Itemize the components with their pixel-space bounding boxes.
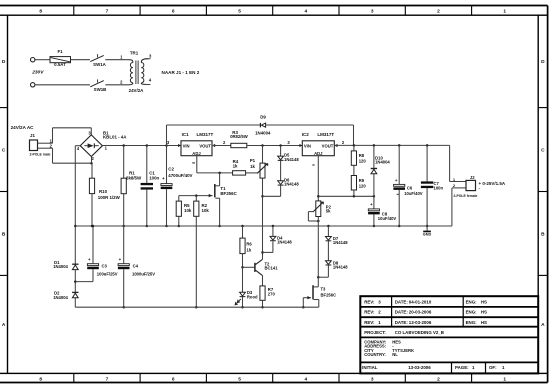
svg-text:DATE:: DATE: (395, 299, 409, 304)
svg-text:C2: C2 (168, 167, 174, 172)
svg-text:ENG:: ENG: (466, 320, 478, 325)
svg-text:1N4004: 1N4004 (375, 159, 390, 164)
svg-text:VOUT: VOUT (322, 143, 334, 148)
svg-text:1N4004: 1N4004 (255, 131, 271, 136)
svg-text:R8: R8 (359, 153, 365, 158)
svg-text:DATE:: DATE: (395, 310, 409, 315)
svg-text:6: 6 (172, 9, 175, 15)
svg-text:04-01-2010: 04-01-2010 (409, 299, 432, 304)
svg-text:A: A (541, 322, 545, 328)
svg-text:100n: 100n (149, 175, 159, 180)
svg-text:5k: 5k (326, 209, 331, 214)
svg-text:PAGE:: PAGE: (455, 365, 469, 370)
svg-text:B: B (541, 232, 545, 238)
svg-text:CO LABVOEDING V2_B: CO LABVOEDING V2_B (395, 330, 444, 335)
svg-text:C3: C3 (102, 264, 108, 269)
svg-text:2-POLE male: 2-POLE male (30, 152, 51, 156)
svg-text:1N4148: 1N4148 (284, 157, 299, 162)
svg-text:8: 8 (39, 376, 42, 382)
svg-text:10uF/40V: 10uF/40V (378, 216, 397, 221)
svg-text:SW1A: SW1A (93, 62, 107, 67)
svg-text:+: + (119, 257, 122, 262)
svg-text:VIN: VIN (304, 143, 311, 148)
svg-text:R6: R6 (246, 241, 252, 246)
svg-text:+: + (162, 176, 165, 181)
svg-text:R9: R9 (359, 178, 365, 183)
svg-text:Rood: Rood (247, 294, 258, 299)
svg-text:HS: HS (481, 310, 487, 315)
svg-text:C6: C6 (407, 186, 413, 191)
svg-text:1: 1 (503, 376, 506, 382)
svg-text:5: 5 (238, 376, 241, 382)
svg-text:DATE:: DATE: (395, 320, 409, 325)
svg-text:ADJ: ADJ (192, 151, 201, 156)
svg-text:IC2: IC2 (302, 132, 310, 137)
svg-text:+: + (88, 257, 91, 262)
svg-text:1k: 1k (233, 164, 238, 169)
svg-text:R10: R10 (99, 189, 108, 194)
svg-text:INITIAL: INITIAL (362, 365, 378, 370)
svg-text:OF:: OF: (489, 365, 497, 370)
svg-text:0.5AT: 0.5AT (54, 62, 66, 67)
svg-text:NAAR J1 - 1 EN 2: NAAR J1 - 1 EN 2 (162, 70, 200, 75)
svg-text:J1: J1 (30, 133, 35, 138)
svg-text:6: 6 (172, 376, 175, 382)
svg-text:10uF/40V: 10uF/40V (404, 191, 423, 196)
svg-text:NL: NL (392, 352, 398, 357)
svg-text:GND: GND (423, 233, 432, 237)
svg-text:1N4148: 1N4148 (284, 182, 299, 187)
svg-text:1N4004: 1N4004 (53, 295, 68, 300)
svg-text:3: 3 (371, 376, 374, 382)
svg-text:4: 4 (305, 9, 308, 15)
svg-text:D: D (2, 59, 6, 65)
svg-text:T3: T3 (321, 286, 327, 291)
svg-text:13-03-2006: 13-03-2006 (409, 320, 432, 325)
svg-text:LM317T: LM317T (197, 132, 214, 137)
svg-text:C: C (541, 148, 545, 154)
svg-text:1N4148: 1N4148 (277, 240, 292, 245)
svg-text:20-03-2006: 20-03-2006 (409, 310, 432, 315)
svg-text:7: 7 (106, 376, 109, 382)
svg-text:REV:: REV: (364, 310, 375, 315)
svg-text:REV:: REV: (364, 320, 375, 325)
svg-text:4: 4 (305, 376, 308, 382)
svg-text:1k: 1k (247, 248, 252, 253)
svg-text:VIN: VIN (183, 143, 190, 148)
svg-text:100uF/25V: 100uF/25V (97, 271, 118, 276)
svg-text:+: + (395, 178, 398, 183)
svg-text:KBL01 - 4A: KBL01 - 4A (103, 135, 127, 140)
svg-text:B: B (2, 232, 6, 238)
svg-text:1N4148: 1N4148 (333, 240, 348, 245)
svg-text:ENG:: ENG: (466, 310, 478, 315)
svg-text:+: + (370, 202, 373, 207)
svg-text:1k: 1k (250, 164, 255, 169)
svg-text:1N4148: 1N4148 (333, 265, 348, 270)
svg-text:2-POLE female: 2-POLE female (454, 194, 478, 198)
svg-text:+ 0-25V/1.5A: + 0-25V/1.5A (479, 181, 506, 186)
svg-text:120: 120 (359, 159, 367, 164)
svg-text:VOUT: VOUT (199, 143, 211, 148)
svg-text:BF256C: BF256C (220, 191, 237, 196)
svg-text:SW1B: SW1B (94, 87, 107, 92)
svg-text:HS: HS (481, 320, 487, 325)
svg-text:TR1: TR1 (130, 51, 139, 56)
svg-text:P1: P1 (250, 158, 256, 163)
svg-text:10k: 10k (184, 208, 192, 213)
svg-text:C: C (2, 148, 6, 154)
svg-text:HS: HS (481, 299, 487, 304)
svg-text:270: 270 (268, 292, 276, 297)
svg-text:10k: 10k (202, 208, 210, 213)
svg-text:230V: 230V (31, 70, 44, 76)
svg-text:3: 3 (371, 9, 374, 15)
svg-text:F1: F1 (57, 49, 63, 54)
svg-text:24V/2A: 24V/2A (129, 88, 144, 93)
svg-text:1000uF/25V: 1000uF/25V (132, 271, 155, 276)
svg-text:D9: D9 (260, 114, 266, 119)
svg-text:2: 2 (437, 9, 440, 15)
svg-text:100n: 100n (434, 185, 444, 190)
svg-text:8: 8 (39, 9, 42, 15)
svg-text:6k8/5W: 6k8/5W (126, 175, 142, 180)
svg-text:24V/2A AC: 24V/2A AC (11, 125, 35, 130)
svg-text:5: 5 (238, 9, 241, 15)
svg-text:PROJECT:: PROJECT: (364, 330, 386, 335)
svg-text:BC141: BC141 (265, 266, 279, 271)
svg-text:120: 120 (359, 183, 367, 188)
svg-text:IC1: IC1 (182, 132, 190, 137)
svg-text:C4: C4 (133, 264, 139, 269)
svg-text:4700uF/40V: 4700uF/40V (168, 173, 192, 178)
svg-text:100R 1/2W: 100R 1/2W (98, 195, 121, 200)
svg-text:J2: J2 (470, 175, 475, 180)
svg-text:LM317T: LM317T (317, 132, 334, 137)
svg-text:7: 7 (106, 9, 109, 15)
svg-text:D: D (541, 59, 545, 65)
svg-text:ENG:: ENG: (466, 299, 478, 304)
svg-text:1: 1 (503, 9, 506, 15)
svg-text:A: A (2, 322, 6, 328)
svg-text:REV:: REV: (364, 299, 375, 304)
svg-text:2: 2 (437, 376, 440, 382)
svg-text:COUNTRY:: COUNTRY: (364, 352, 386, 357)
svg-text:1N4004: 1N4004 (53, 264, 68, 269)
svg-text:BF256C: BF256C (321, 292, 337, 297)
svg-text:13-03-2006: 13-03-2006 (408, 365, 431, 370)
svg-text:ADJ: ADJ (314, 151, 323, 156)
svg-text:0R82/5W: 0R82/5W (230, 134, 248, 139)
